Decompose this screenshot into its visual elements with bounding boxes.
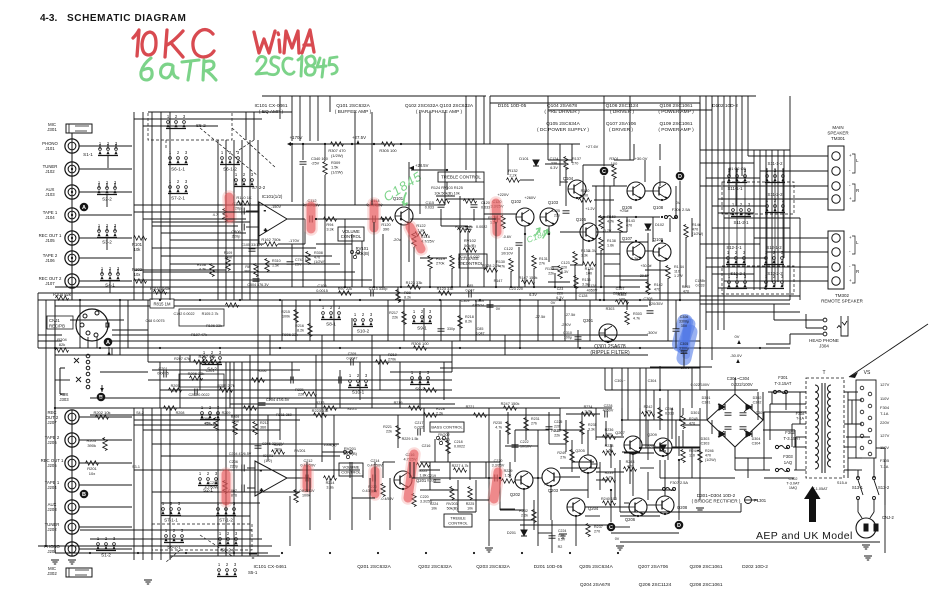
wire mid v <box>403 300 405 341</box>
wire bottom v <box>333 415 335 478</box>
wire bottom v <box>605 421 607 446</box>
svg-text:J207: J207 <box>47 420 57 425</box>
svg-text:2.2k: 2.2k <box>521 514 528 518</box>
wire matrix horizontal bottom <box>170 515 250 517</box>
svg-text:Q206 2SC1124: Q206 2SC1124 <box>639 582 672 588</box>
svg-text:R2: R2 <box>558 545 563 549</box>
wire amp v2 <box>644 160 646 182</box>
svg-text:(1/2W): (1/2W) <box>331 169 343 174</box>
wire <box>794 469 806 471</box>
svg-text:R221: R221 <box>383 425 392 429</box>
jack J206 <box>65 433 79 447</box>
wire bottom v2 <box>550 486 552 520</box>
wire vertical drop <box>361 241 363 287</box>
wire amp h2 <box>596 231 627 233</box>
svg-text:Q207: Q207 <box>615 430 626 435</box>
wire bus <box>620 541 880 543</box>
wire speaker h2 <box>700 243 760 245</box>
wire vertical drop <box>451 268 453 287</box>
wire mid v2 <box>339 370 341 408</box>
svg-text:6.3V: 6.3V <box>550 166 558 170</box>
speaker polarity labels <box>849 153 860 201</box>
svg-text:S6-1-2: S6-1-2 <box>223 167 237 172</box>
wire bottom v2 <box>664 460 666 496</box>
wire bottom h2 <box>500 509 524 511</box>
voltage selector VS <box>856 380 876 458</box>
svg-text:J203: J203 <box>47 507 57 512</box>
label R215 <box>281 310 290 319</box>
svg-text:0.0022: 0.0022 <box>476 225 487 229</box>
wire mid v <box>649 300 651 306</box>
wire mid v <box>537 300 539 341</box>
svg-text:22k: 22k <box>548 271 554 275</box>
svg-text:R88: R88 <box>404 291 411 295</box>
selector contact 2 <box>868 440 872 444</box>
wire vertical drop <box>397 287 399 300</box>
svg-text:360: 360 <box>260 426 266 430</box>
wire <box>258 227 260 244</box>
switch S13-2 <box>873 477 880 500</box>
svg-text:SPEAKER: SPEAKER <box>827 131 849 136</box>
svg-text:R234: R234 <box>584 405 593 409</box>
wire <box>640 447 700 449</box>
resistor R211 <box>253 422 258 435</box>
svg-text:S11-2-1: S11-2-1 <box>734 220 750 225</box>
label R143 <box>626 219 635 228</box>
wire psu h <box>744 499 758 501</box>
wire matrix h2 <box>143 218 246 220</box>
wire <box>844 391 856 393</box>
svg-text:R219: R219 <box>388 353 397 357</box>
svg-text:CONTROL: CONTROL <box>341 234 362 239</box>
label HEAD PHONE <box>809 338 839 348</box>
wire bottom h <box>615 526 630 528</box>
label R108 <box>197 263 206 272</box>
wire amp h2 <box>620 279 648 281</box>
wire <box>679 390 681 420</box>
arrow up to A <box>107 351 111 355</box>
label C128 <box>587 284 598 293</box>
wire mid v <box>564 300 566 341</box>
label RV201 <box>343 446 358 456</box>
wire from J104 <box>79 214 133 216</box>
wire <box>683 354 685 368</box>
label Q109 2SC1061 <box>658 121 694 133</box>
svg-text:A: A <box>82 205 86 211</box>
label R249 <box>557 451 566 459</box>
svg-text:D101: D101 <box>519 156 529 161</box>
label C128b <box>695 279 706 287</box>
wire vertical drop <box>575 287 577 300</box>
svg-text:T-1A: T-1A <box>880 464 889 469</box>
wire bottom v <box>682 408 684 415</box>
svg-text:C113 330p: C113 330p <box>369 286 388 291</box>
resistor R234 <box>582 412 595 417</box>
wire bus <box>55 286 640 288</box>
wire psu v <box>653 390 655 420</box>
resistor R235 <box>580 422 585 435</box>
wire amp h <box>447 198 484 200</box>
svg-text:1.5k: 1.5k <box>505 474 512 478</box>
svg-text:D101 10D-05: D101 10D-05 <box>498 103 527 109</box>
wire matrix riser <box>465 96 467 170</box>
label R205 <box>171 384 180 393</box>
wire <box>246 226 259 228</box>
wire bottom v <box>610 444 612 468</box>
wire <box>547 96 549 134</box>
handwriting 0 <box>142 32 156 55</box>
resistor R140 <box>579 198 592 203</box>
wire <box>621 368 623 420</box>
wire vertical drop <box>533 268 535 287</box>
label D301~D304 10D-2 <box>692 493 741 503</box>
svg-text:8.2k: 8.2k <box>297 329 304 333</box>
wire bottom h2 <box>585 506 629 508</box>
handwriting C2 <box>283 58 294 74</box>
wire <box>302 144 304 160</box>
svg-text:1AQ: 1AQ <box>784 460 793 465</box>
transistor Q207 <box>624 436 642 454</box>
svg-text:R906 33k: R906 33k <box>282 333 298 337</box>
svg-text:MAIN: MAIN <box>832 125 843 130</box>
svg-text:R229 1.5k: R229 1.5k <box>402 437 419 441</box>
label C219 <box>427 474 436 482</box>
wire amp h2 <box>570 264 583 266</box>
label R134 <box>582 278 591 286</box>
svg-text:R107 47k: R107 47k <box>191 333 207 337</box>
resistor mid1 <box>164 406 177 411</box>
wire bottom h2 <box>560 476 580 478</box>
wire bottom h <box>538 532 552 534</box>
svg-text:R242: R242 <box>644 405 653 409</box>
label R303 <box>633 312 642 321</box>
svg-text:J304: J304 <box>819 343 829 348</box>
wire matrix riser <box>475 96 477 182</box>
resistor R134 <box>574 276 579 289</box>
label C120 <box>490 200 504 209</box>
label R246 <box>705 449 716 462</box>
wire vertical drop <box>419 170 421 214</box>
wire bottom v <box>382 462 384 478</box>
svg-text:S11-1-2: S11-1-2 <box>768 161 784 166</box>
svg-text:+: + <box>849 235 852 240</box>
wire amp h <box>604 275 648 277</box>
highlight on C103 <box>229 197 230 218</box>
highlight on C116 <box>410 227 421 249</box>
wire bottom h <box>383 461 395 463</box>
resistor R147 <box>522 280 535 285</box>
wire matrix h2 <box>161 255 332 257</box>
wire mid h2 <box>152 369 300 371</box>
wire bottom v2 <box>587 430 589 455</box>
svg-text:-27.5#: -27.5# <box>535 315 546 319</box>
wire <box>847 392 849 478</box>
label MIC <box>47 566 57 576</box>
capacitor C206 <box>242 465 244 472</box>
resistor R207 <box>206 360 219 365</box>
wire speaker v2 <box>771 150 773 282</box>
wire speaker bundle v <box>723 96 725 330</box>
resistor R249 <box>570 450 575 463</box>
wire psu v2 <box>795 437 797 470</box>
capacitor C340 <box>300 162 307 164</box>
label C114 <box>367 198 383 208</box>
svg-text:R147: R147 <box>494 279 503 283</box>
switch S3-1 <box>200 405 220 427</box>
svg-text:Q301: Q301 <box>583 318 594 323</box>
svg-text:R123 33k: R123 33k <box>437 286 454 291</box>
svg-text:A: A <box>106 340 110 346</box>
wire matrix vertical <box>241 140 243 300</box>
terminal circle <box>832 234 840 242</box>
wire vertical drop <box>440 209 442 226</box>
ground <box>249 554 257 558</box>
wire bottom h2 <box>672 446 700 448</box>
wire amp h <box>645 190 653 192</box>
wire <box>793 446 806 448</box>
svg-text:+: + <box>264 228 267 234</box>
wire <box>287 218 305 220</box>
wire vertical drop <box>473 209 475 221</box>
capacitor C228 <box>605 411 607 418</box>
label R138 <box>607 239 616 248</box>
highlight on C120 <box>496 203 497 232</box>
svg-text:R106 33k: R106 33k <box>206 324 222 328</box>
capacitor C112 <box>310 216 312 223</box>
wire from J107 <box>79 280 133 282</box>
capacitor C115 <box>438 205 445 207</box>
wire <box>400 223 402 260</box>
wire psu v <box>757 392 759 420</box>
label RV102 <box>464 238 477 248</box>
svg-text:C301: C301 <box>702 401 711 405</box>
wire matrix h2 <box>143 271 355 273</box>
wire psu v <box>734 378 736 394</box>
svg-text:0.0075: 0.0075 <box>157 372 169 376</box>
label R8 <box>244 265 250 273</box>
label C124 <box>550 157 559 170</box>
label R119 <box>436 256 445 266</box>
handwriting alpha <box>161 64 178 78</box>
label C302 <box>786 477 800 490</box>
label C220 <box>420 495 433 503</box>
resistor R207b <box>194 360 207 365</box>
wire bottom v <box>691 368 693 408</box>
label C115 <box>425 201 434 210</box>
wire psu v <box>627 368 629 420</box>
wire bottom v <box>647 472 649 500</box>
capacitor C302 <box>740 413 747 415</box>
svg-text:22k: 22k <box>298 393 304 397</box>
wire vertical drop <box>524 226 526 287</box>
wire matrix h2 <box>152 247 316 249</box>
svg-text:-25V: -25V <box>311 161 320 166</box>
svg-text:R217: R217 <box>389 311 398 315</box>
svg-text:22k: 22k <box>458 261 464 266</box>
svg-text:J303: J303 <box>59 397 69 402</box>
switch S12-1-1 <box>726 250 746 265</box>
svg-text:R109: R109 <box>224 251 233 255</box>
svg-text:R206 33k: R206 33k <box>188 371 205 376</box>
wire vertical drop <box>507 144 509 175</box>
wire bottom h <box>624 452 654 454</box>
resistor R303 <box>625 312 630 325</box>
wire bus <box>38 340 62 342</box>
wire bottom v2 <box>678 436 680 456</box>
svg-text:C304: C304 <box>648 379 657 383</box>
svg-text:R211 360: R211 360 <box>276 413 292 417</box>
wire matrix vertical <box>142 112 144 300</box>
wire matrix vertical <box>225 140 227 300</box>
wire bottom h2 <box>412 477 489 479</box>
svg-text:IC101 CX-0461: IC101 CX-0461 <box>253 564 286 570</box>
capacitor C105 <box>249 249 256 251</box>
selector contact <box>860 410 864 414</box>
svg-text:S5-1: S5-1 <box>248 570 258 575</box>
resistor R255 <box>220 388 233 393</box>
wire matrix horizontal <box>148 111 292 113</box>
arrow 0V <box>737 340 741 344</box>
wire bottom h2 <box>520 524 611 526</box>
wire bottom v2 <box>409 462 411 478</box>
svg-text:S11-1-1: S11-1-1 <box>728 186 744 191</box>
svg-text:J301: J301 <box>47 127 57 132</box>
svg-text:1M: 1M <box>172 389 177 393</box>
label F30# <box>796 412 806 421</box>
wire bottom h <box>549 443 566 445</box>
label RV202 <box>438 433 450 442</box>
svg-text:22k: 22k <box>392 316 398 320</box>
svg-text:S7-2-1: S7-2-1 <box>171 196 185 201</box>
svg-text:C218: C218 <box>454 440 463 444</box>
svg-text:HEAD PHONE: HEAD PHONE <box>809 338 839 343</box>
wire speaker feed <box>700 295 800 297</box>
svg-text:C: C <box>602 169 606 175</box>
wire bottom v2 <box>429 462 431 490</box>
resistor R138 <box>599 238 604 251</box>
svg-text:R310: R310 <box>272 259 281 263</box>
box VOLUME CONTROL 2 <box>339 463 363 476</box>
svg-text:2.2k: 2.2k <box>436 412 443 416</box>
svg-text:R219: R219 <box>394 401 403 405</box>
svg-text:D301: D301 <box>702 396 711 400</box>
wire amp v2 <box>699 103 701 150</box>
node C <box>607 523 616 532</box>
svg-text:3300μ: 3300μ <box>679 346 689 350</box>
wire matrix vertical <box>169 112 171 300</box>
wire bottom h2 <box>647 504 656 506</box>
wire bottom h <box>624 502 629 504</box>
label C806 <box>231 229 240 239</box>
wire <box>620 511 741 513</box>
wire bottom v2 <box>575 516 577 546</box>
wire matrix vertical <box>249 140 251 300</box>
diode D201 <box>521 530 527 536</box>
transistor Q206 <box>629 498 647 516</box>
transistor Q102 <box>516 208 534 226</box>
wire matrix riser <box>483 96 485 144</box>
resistor R225 <box>468 487 473 500</box>
wire bottom v <box>397 415 399 448</box>
label Q104 2SA678 <box>544 103 580 115</box>
resistor R302 <box>616 300 629 305</box>
wire left edge <box>37 293 39 348</box>
capacitor C806 <box>242 224 244 231</box>
svg-text:C23 220: C23 220 <box>509 287 523 291</box>
label R208 <box>201 417 210 426</box>
wire speaker bundle v <box>705 96 707 330</box>
label R135 <box>581 249 590 257</box>
handwriting S <box>269 57 279 75</box>
svg-text:+28.5V: +28.5V <box>415 163 429 168</box>
svg-text:TREBLE CONTROL: TREBLE CONTROL <box>441 175 481 180</box>
resistor R135 <box>573 252 578 265</box>
label Q105 2SC634A <box>537 121 589 133</box>
wire bus <box>55 354 648 356</box>
jack J207 <box>65 410 79 424</box>
switch S9-2 <box>410 370 430 392</box>
wire switch column v <box>782 168 784 286</box>
label TAPE 2 <box>45 435 60 445</box>
wire speaker h2 <box>718 212 754 214</box>
svg-text:J202: J202 <box>47 527 57 532</box>
svg-text:C202 0.0022: C202 0.0022 <box>188 393 209 397</box>
wire <box>659 366 661 390</box>
resistor R143 <box>618 220 623 233</box>
label R209 <box>231 415 240 423</box>
resistor <box>134 279 147 284</box>
label R308 <box>314 251 325 264</box>
ground <box>616 546 624 550</box>
wire <box>246 210 259 212</box>
mic jack J302 <box>66 568 92 577</box>
wire vertical drop <box>324 175 326 287</box>
transistor Q105 <box>580 223 598 241</box>
wire psu h2 <box>796 436 806 438</box>
wire matrix vertical bottom <box>233 362 235 556</box>
svg-text:470: 470 <box>705 453 711 457</box>
wire vertical drop <box>574 264 576 287</box>
svg-text:C228: C228 <box>604 404 613 408</box>
wire psu v2 <box>799 392 801 424</box>
wire vertical drop <box>459 196 461 287</box>
wire amp h <box>598 216 660 218</box>
label R236 <box>605 428 614 437</box>
capacitor C215 <box>438 329 445 331</box>
wire speaker h2 <box>718 287 766 289</box>
wire mid v2 <box>315 355 317 408</box>
svg-text:R205: R205 <box>171 384 180 388</box>
capacitor C120 <box>471 205 478 207</box>
wire matrix h2 <box>170 239 259 241</box>
wire mid v <box>351 318 353 341</box>
svg-text:R308: R308 <box>314 251 323 255</box>
svg-text:D201 10D-05: D201 10D-05 <box>534 564 563 570</box>
svg-text:R225: R225 <box>466 502 475 506</box>
label R101 <box>132 242 143 252</box>
resistor R307 <box>331 142 344 147</box>
wire speaker bundle v <box>753 150 755 290</box>
wire switch stub <box>117 269 119 274</box>
svg-text:R130: R130 <box>496 260 505 264</box>
svg-text:1.6k: 1.6k <box>606 449 613 453</box>
wire mid v <box>371 335 373 408</box>
label TUNER <box>43 164 58 174</box>
label RV101 <box>355 246 370 256</box>
wire from J203 <box>79 506 133 508</box>
label C217 <box>414 421 423 430</box>
wire speaker feed <box>748 155 828 157</box>
